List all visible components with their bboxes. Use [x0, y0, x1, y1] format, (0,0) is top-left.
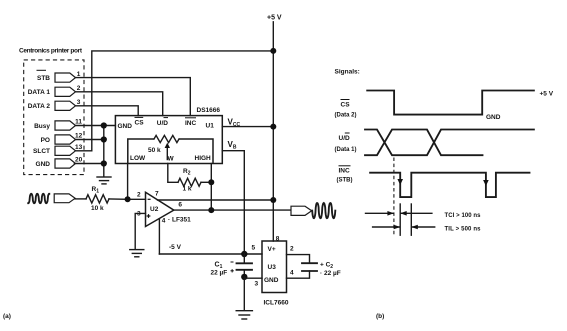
svg-text:STB: STB	[37, 75, 50, 82]
wire U3 pin 3 to C1 junction	[244, 277, 262, 279]
ground bus vertical	[103, 126, 105, 177]
wire op-amp output	[174, 209, 291, 211]
svg-text:2: 2	[290, 246, 294, 253]
pot wiper arrow and W label	[165, 143, 175, 163]
U1 CS pin label	[135, 117, 145, 126]
svg-text:SLCT: SLCT	[33, 148, 50, 155]
wire R1 to op-amp inverting input	[109, 198, 146, 200]
wire C1 bottom to ground	[243, 277, 245, 310]
input signal sine symbol	[28, 194, 49, 203]
ground symbol C1	[236, 311, 252, 319]
INC waveform	[370, 173, 529, 197]
op-amp noninverting plus	[147, 214, 151, 218]
svg-text:DS1666: DS1666	[197, 107, 221, 114]
junction summing node	[125, 196, 131, 202]
extension line INC rising edge	[410, 204, 412, 235]
pot resistive element zigzag	[154, 135, 179, 142]
svg-text:8: 8	[276, 236, 280, 243]
svg-text:(b): (b)	[376, 313, 384, 320]
wire VB to -5V node	[222, 151, 244, 254]
wire pin 4 to -5V	[158, 219, 160, 254]
svg-text:W: W	[168, 156, 175, 163]
junction pin11 bus	[101, 122, 107, 128]
svg-text:13: 13	[75, 144, 83, 151]
svg-text:HIGH: HIGH	[195, 155, 212, 162]
Centronics printer port dashed box	[24, 60, 84, 175]
wire Busy to DS1666 GND pin	[76, 125, 116, 127]
capacitor C2	[302, 263, 317, 271]
wire -5V line to ICL7660 pin 5	[159, 253, 262, 255]
svg-text:22 µF: 22 µF	[211, 270, 228, 277]
junction pin7 rail	[270, 197, 276, 203]
C1 polarity marks	[231, 262, 234, 272]
svg-text:(STB): (STB)	[337, 177, 353, 183]
junction -5V / VB / C1	[241, 251, 247, 257]
CS waveform	[367, 91, 534, 115]
svg-text:4: 4	[162, 218, 166, 225]
svg-text:-5 V: -5 V	[169, 244, 182, 251]
pot element box	[128, 139, 213, 164]
svg-text:12: 12	[75, 133, 83, 140]
svg-text:PO: PO	[41, 137, 50, 144]
svg-text:GND: GND	[118, 123, 133, 130]
svg-text:DATA 1: DATA 1	[28, 89, 51, 96]
junction R2 / HIGH	[208, 179, 214, 185]
wire GND pin20 to ground bus	[74, 163, 103, 165]
connector pin DATA 1 (pin 2)	[28, 85, 81, 96]
svg-text:Busy: Busy	[34, 123, 50, 130]
node INC (STB) label	[337, 166, 353, 184]
svg-text:2: 2	[77, 85, 81, 92]
svg-text:2: 2	[137, 192, 141, 199]
wire U3 pin 2 to C2	[287, 255, 310, 264]
svg-text:U2: U2	[150, 206, 159, 213]
svg-text:ICL7660: ICL7660	[264, 300, 289, 307]
svg-text:DATA 2: DATA 2	[28, 103, 51, 110]
wire pin 7 to +5V rail	[158, 199, 274, 201]
connector pin DATA 2 (pin 3)	[28, 99, 81, 110]
svg-text:LOW: LOW	[130, 155, 146, 162]
svg-text:50 k: 50 k	[148, 147, 161, 154]
svg-text:1: 1	[77, 71, 81, 78]
svg-text:GND: GND	[36, 161, 51, 168]
svg-text:CS: CS	[135, 120, 145, 127]
connector pin GND (pin 20)	[36, 157, 83, 168]
svg-text:20: 20	[75, 157, 83, 164]
ground symbol op-amp pin 3	[130, 250, 144, 257]
svg-text:· 22 µF: · 22 µF	[320, 270, 341, 277]
svg-text:6: 6	[178, 202, 182, 209]
wire VCC to +5V rail	[222, 126, 273, 128]
svg-text:TIL > 500 ns: TIL > 500 ns	[445, 227, 482, 233]
dashed timing reference line	[393, 158, 395, 236]
node U/D (Data 1) label	[335, 133, 357, 153]
wire SLCT to +5V rail	[76, 51, 274, 151]
svg-text:U/D: U/D	[157, 120, 169, 127]
digital pot U1 DS1666 body	[115, 116, 222, 164]
svg-text:+5 V: +5 V	[540, 91, 554, 98]
resistor R2	[178, 178, 201, 186]
junction +5V rail / SLCT line	[270, 48, 276, 54]
svg-text:10 k: 10 k	[91, 205, 104, 212]
trigger arrow first INC pulse	[397, 175, 403, 185]
+5V rail vertical	[272, 22, 274, 241]
connector pin PO (pin 12)	[41, 133, 83, 144]
dimension TCI arrows	[366, 211, 432, 216]
svg-text:(a): (a)	[3, 313, 11, 320]
wire DATA 2 to CS pin	[76, 106, 139, 116]
svg-text:Centronics printer port: Centronics printer port	[19, 48, 83, 55]
svg-text:4: 4	[290, 270, 294, 277]
svg-text:+5 V: +5 V	[267, 15, 282, 22]
svg-text:3: 3	[255, 281, 259, 288]
wire LOW pin down to summing node	[127, 164, 129, 200]
wire R2 to HIGH vertical	[201, 181, 211, 183]
wire PO to ground bus	[76, 139, 104, 141]
op-amp U2 LF351 triangle	[146, 192, 174, 226]
svg-text:CS: CS	[341, 102, 351, 109]
junction output / HIGH	[208, 207, 214, 213]
svg-text:5: 5	[252, 245, 256, 252]
svg-text:INC: INC	[185, 120, 197, 127]
wire W pin down	[168, 164, 178, 183]
connector pin SLCT (pin 13)	[33, 144, 83, 155]
connector pin Busy (pin 11)	[34, 119, 82, 130]
junction C1 / pin 3 wire	[241, 274, 247, 280]
svg-text:INC: INC	[339, 168, 351, 175]
svg-text:U/D: U/D	[339, 135, 351, 142]
junction VCC rail	[270, 124, 276, 130]
svg-text:GND: GND	[264, 277, 279, 284]
output signal sine symbol	[312, 203, 335, 218]
svg-text:7: 7	[155, 191, 159, 198]
wire STB to INC pin	[76, 78, 191, 116]
svg-text:11: 11	[75, 119, 82, 126]
U/D waveform	[365, 130, 534, 156]
U1 U/D pin label	[157, 118, 169, 127]
extension line INC falling edge	[399, 204, 401, 235]
dimension TIL arrows	[373, 225, 435, 230]
svg-text:V+: V+	[268, 246, 276, 253]
svg-text:(Data 1): (Data 1)	[335, 147, 357, 153]
svg-text:· LF351: · LF351	[168, 217, 191, 224]
wire HIGH pin down to output line	[210, 164, 212, 211]
op-amp inverting input minus	[148, 198, 151, 200]
input connector	[54, 194, 75, 203]
svg-text:TCI > 100 ns: TCI > 100 ns	[445, 213, 482, 219]
wire input to R1	[75, 198, 86, 200]
ground symbol port bus	[97, 177, 111, 184]
output connector	[291, 206, 312, 215]
capacitor C1	[237, 254, 253, 277]
junction pin20 bus	[101, 160, 107, 166]
svg-text:U1: U1	[206, 123, 215, 130]
voltage converter U3 ICL7660 body	[262, 241, 287, 293]
trigger arrow second INC pulse	[483, 175, 489, 186]
U1 INC pin label	[185, 118, 197, 127]
connector pin STB (pin 1)	[37, 70, 81, 82]
node CS (Data 2) label	[335, 100, 357, 119]
wire DATA 1 to U/D pin	[76, 92, 163, 116]
svg-text:1 k: 1 k	[183, 186, 192, 193]
resistor R1	[86, 195, 109, 203]
svg-text:Signals:: Signals:	[335, 69, 360, 76]
junction pin12 bus	[101, 136, 107, 142]
svg-text:(Data 2): (Data 2)	[335, 113, 357, 119]
svg-text:3: 3	[77, 99, 81, 106]
svg-text:U3: U3	[268, 264, 277, 271]
wire U3 pin 4 to C2	[287, 271, 310, 278]
wire pin 3 to ground	[135, 213, 145, 248]
svg-text:GND: GND	[486, 114, 501, 121]
